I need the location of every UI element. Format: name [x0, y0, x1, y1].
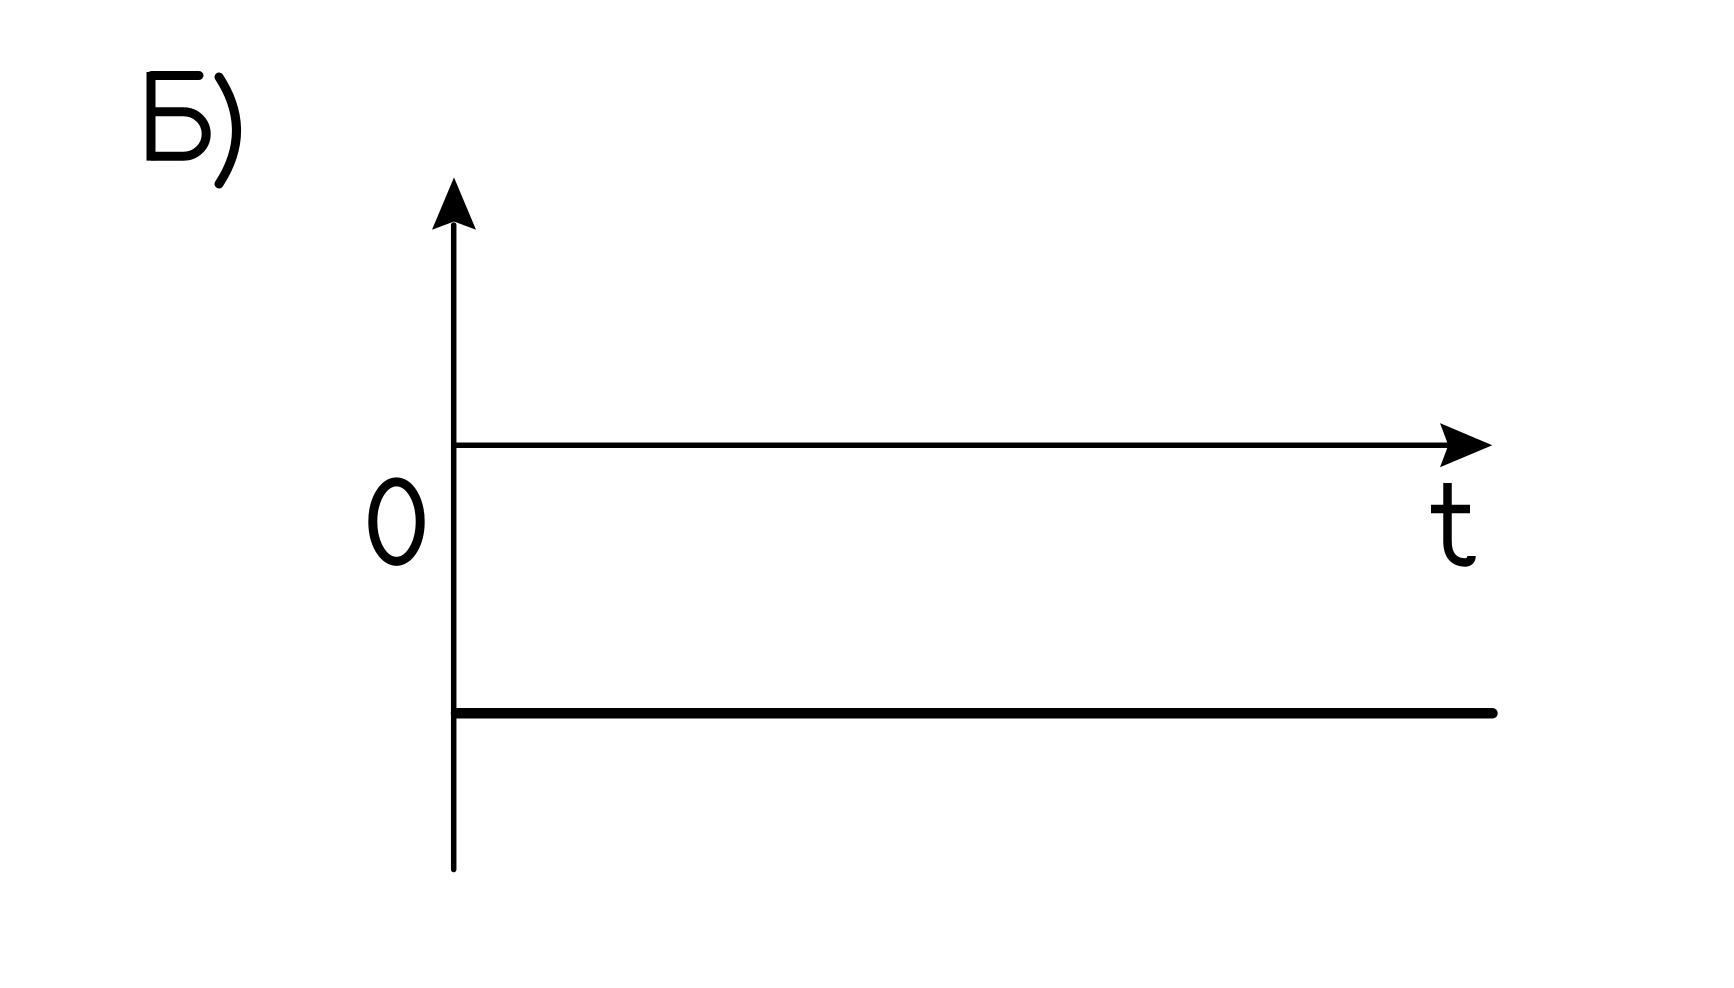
- origin label 0: [373, 482, 420, 562]
- x-axis: [451, 443, 1449, 449]
- x-axis arrowhead: [1440, 423, 1492, 467]
- panel label Б): [151, 72, 237, 184]
- y-axis: [451, 225, 457, 870]
- y-axis arrowhead: [432, 177, 476, 229]
- graph line: constant negative value: [456, 708, 1493, 719]
- axis label t: [1431, 483, 1472, 563]
